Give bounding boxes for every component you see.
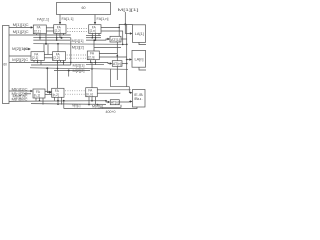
- wire row1 carry bus b: [33, 39, 70, 41]
- wire stub row2c1 o3: [40, 60, 42, 65]
- wire long vertical to row3 c3: [91, 62, 93, 87]
- svg-text:[2,n]: [2,n]: [88, 55, 94, 59]
- node row3c3 o1: [88, 104, 90, 106]
- svg-text:[n,2]: [n,2]: [53, 93, 59, 97]
- cell FA row3 c2: [52, 88, 64, 97]
- node FA[2,2] s2: [61, 37, 63, 39]
- node row3c3 o3: [97, 104, 99, 106]
- svg-text:FA[1,n]: FA[1,n]: [97, 17, 109, 21]
- node v57 y62.4: [57, 62, 59, 64]
- dotted continuation row3 upper: [65, 90, 84, 92]
- wire M[1][1]C register to FA[2,1]: [9, 26, 31, 28]
- svg-text:AT[n]: AT[n]: [113, 62, 122, 66]
- node FA[2,2] s1b: [56, 39, 58, 41]
- wire connector row2 c1-c2 upper: [44, 54, 52, 56]
- node row2c1 o2: [37, 62, 39, 64]
- wire stub row2c1 o1: [33, 60, 35, 62]
- wire bottom bus y104.6: [31, 103, 106, 106]
- wire bus under FA[2,n]: [86, 35, 101, 37]
- wire connector row3 c1-c2 lower: [45, 94, 52, 96]
- wire AT[n] out: [122, 63, 127, 65]
- node feedback x63.8: [63, 100, 65, 102]
- svg-text:LA[n]: LA[n]: [135, 57, 144, 61]
- dotted continuation row1 upper: [68, 28, 88, 30]
- node stub2 row1c1: [39, 37, 41, 39]
- wire E bottom feedback: [64, 107, 137, 109]
- wire connector row1 c1-c2 lower: [46, 30, 53, 32]
- accumulator AT (bottom): [110, 100, 119, 105]
- node row3c1 o2: [39, 100, 41, 102]
- wire into LA[n]: [127, 59, 130, 61]
- wire stub row2c1 o2: [37, 60, 39, 62]
- cell FA row2 c1: [31, 52, 44, 61]
- wire stub row3c2 o2: [57, 97, 59, 104]
- svg-text:FA[1,1]: FA[1,1]: [62, 17, 74, 21]
- cell FA row3 c3: [86, 88, 98, 97]
- node FA[2,2] s1: [56, 37, 58, 39]
- wire stub FA[2,2] out3: [62, 33, 64, 35]
- wire row3 c3 out upper into E: [97, 89, 130, 91]
- node row2c3 o2: [95, 62, 97, 64]
- wire row2 c3 out upper: [99, 53, 117, 55]
- svg-text:M[2][1]: M[2][1]: [73, 64, 85, 68]
- wire FA[2,n] out to LA[1] top bus: [101, 24, 133, 27]
- wire row1 sum bus a right segment: [86, 37, 101, 39]
- svg-text:LA[1]: LA[1]: [135, 32, 144, 36]
- node ATn out: [126, 63, 128, 65]
- register 60 (left): [3, 26, 10, 104]
- node LAn in: [126, 59, 128, 61]
- wire AT[1] out: [121, 38, 127, 40]
- cell FA row2 c3: [87, 51, 99, 60]
- wire corner band2 down x68.7: [68, 71, 70, 77]
- svg-text:[n,n]: [n,n]: [87, 92, 93, 96]
- wire stub row3c2 o3: [61, 97, 63, 104]
- cell FA row3 c1: [33, 89, 45, 98]
- wire M[n][2]C row: [24, 93, 31, 95]
- cell FA[2,1] row1: [33, 25, 46, 34]
- svg-text:M[1][1]C: M[1][1]C: [13, 23, 30, 27]
- svg-text:M[1][1]: M[1][1]: [72, 39, 84, 43]
- wire stub row2c3 o1: [90, 60, 92, 63]
- wire vertical band2 to row3 c1: [47, 68, 50, 92]
- dotted continuation row2 lower: [67, 57, 86, 59]
- node v92 y69: [91, 68, 93, 70]
- wire register long bus y62.4: [9, 62, 110, 63]
- node FA[2,n] s2: [95, 37, 97, 39]
- wire horizontal into right bus y86.7: [111, 86, 127, 88]
- wire stub FA[2,1] out3: [45, 34, 47, 44]
- wire long vertical to row3 c2: [57, 60, 59, 88]
- wire top register to FA[1,n]: [94, 15, 96, 23]
- svg-text:M[n][n]: M[n][n]: [92, 105, 103, 109]
- node y44.4 x122.7: [122, 44, 124, 46]
- wire stub row3c2 o1: [54, 97, 56, 100]
- svg-text:60: 60: [3, 63, 7, 67]
- node drop x58 on bus: [57, 43, 59, 45]
- svg-text:Bu.: Bu.: [134, 97, 143, 101]
- svg-text:[2,1]: [2,1]: [34, 29, 40, 33]
- wire band2 bus y68.4: [30, 68, 128, 70]
- node at x117 y55.7: [117, 55, 119, 57]
- svg-text:60: 60: [82, 6, 86, 10]
- wire stub row3c3 o3: [94, 97, 96, 105]
- wire into row2 c2 top: [57, 44, 59, 52]
- node bottom bus x106: [105, 100, 107, 102]
- node row3c2 o2: [57, 100, 59, 102]
- svg-text:AT[1]: AT[1]: [111, 38, 120, 42]
- wire stub FA[2,n] out3: [98, 33, 100, 35]
- dotted continuation row3 lower: [65, 93, 84, 95]
- wire drop x117.3 below AT[n]: [116, 66, 118, 80]
- accumulator AT[1]: [110, 36, 121, 42]
- wire corner band1 down: [70, 38, 72, 65]
- wire stub row3c1 o2: [39, 98, 41, 101]
- dotted continuation row1 lower: [68, 31, 88, 33]
- node x119 y27.4: [118, 27, 120, 29]
- wire M[2][1]C into row2 cell1: [23, 48, 29, 50]
- node row3c2 o2 lower: [57, 103, 59, 105]
- wire M[n][1]C into row3 c1: [9, 90, 31, 92]
- wire stub row2c3 o2: [94, 60, 96, 65]
- node band2 x47: [46, 67, 48, 69]
- svg-text:M[2][2]C: M[2][2]C: [12, 58, 29, 62]
- register 60 (top): [57, 3, 111, 15]
- wire stub FA[2,1] out2: [39, 34, 41, 40]
- wire right bus corner into E: [127, 87, 131, 93]
- node x70.8 on bus y62.4: [70, 62, 72, 64]
- wire top register to FA[1,1]: [59, 15, 61, 23]
- wire stub FA[2,n] out2: [95, 33, 97, 40]
- wire LA[n] bottom out: [139, 67, 146, 70]
- wire stub row3c3 o2: [91, 97, 93, 101]
- wire AT bottom out to E: [119, 101, 130, 104]
- wire row1 bus c: [33, 43, 126, 46]
- wire stub row3c1 o1: [35, 98, 37, 101]
- latch LA[n]: [132, 50, 146, 67]
- svg-text:[2,1]: [2,1]: [32, 56, 38, 60]
- wire connector row2 c1-c2 lower: [44, 57, 52, 59]
- wire M[1][2]C register bus under row1: [9, 34, 71, 36]
- wire register row2 feed: [9, 55, 31, 57]
- svg-text:AT[n]: AT[n]: [111, 101, 119, 105]
- wire stub FA[2,2] out1: [56, 33, 58, 40]
- wire drop x110.5 band2 to y86.7: [110, 69, 112, 86]
- svg-text:M[n][2]: M[n][2]: [72, 103, 80, 107]
- wire row1 sum bus a: [33, 37, 71, 39]
- wire row1 carry bus b right to AT[1]: [86, 39, 108, 40]
- wire band2 bus y65 left: [31, 64, 71, 66]
- wire bus into LA[1]: [125, 33, 130, 35]
- cell FA row2 c2: [53, 52, 66, 61]
- node row3c3 o2: [91, 100, 93, 102]
- svg-text:[2,2]: [2,2]: [53, 56, 59, 60]
- svg-text:[2,2]: [2,2]: [55, 29, 61, 33]
- buffer E (bottom right): [133, 90, 146, 108]
- wire stub row2c2 o2: [60, 60, 62, 62]
- wire row3 c3 out lower: [97, 92, 120, 95]
- node v57 y68.4: [57, 68, 59, 70]
- accumulator AT[n]: [112, 61, 122, 67]
- wire stub row3c1 o3: [42, 98, 44, 105]
- svg-text:M[1][2]: M[1][2]: [72, 45, 84, 49]
- svg-text:FA[2,1]: FA[2,1]: [37, 17, 49, 21]
- wire FA[2,n] out lower to AT column: [101, 31, 123, 44]
- svg-text:M[1][2]C: M[1][2]C: [13, 30, 30, 34]
- wire connector row3 c1-c2 upper: [45, 90, 52, 92]
- node row2c2 o3: [63, 62, 65, 64]
- node band2 x68.7: [68, 70, 70, 72]
- wire stub FA[2,2] out2: [59, 33, 61, 37]
- wire drop to row2 c1 top: [43, 44, 45, 52]
- wire drop to row2 connector: [47, 44, 49, 55]
- wire right vertical bus: [126, 24, 128, 86]
- latch LA[1]: [133, 25, 146, 43]
- wire into row2 c3 top: [93, 40, 95, 51]
- wire row2 c3 out lower: [99, 56, 126, 58]
- wire band2 lower segment: [54, 70, 90, 72]
- node on bus y24.4: [124, 23, 126, 25]
- wire M[1][1] label down to bus: [124, 12, 126, 34]
- node FA[2,n] s1: [92, 37, 94, 39]
- node drop x94: [93, 39, 95, 41]
- wire connector row1 c1-c2 upper: [46, 27, 53, 29]
- wire bus y47.5: [94, 47, 121, 49]
- svg-text:E.B: E.B: [134, 93, 143, 97]
- node row2c3 o1: [90, 62, 92, 64]
- node y44.4 x126.7: [126, 44, 128, 46]
- svg-text:[2,n]: [2,n]: [90, 29, 96, 33]
- svg-text:400+0: 400+0: [106, 110, 116, 114]
- dotted continuation row2 upper: [67, 54, 86, 56]
- wire stub FA[2,1] out1: [36, 34, 38, 35]
- svg-text:[n,1]: [n,1]: [34, 94, 40, 98]
- wire band2 bus y65 right: [86, 64, 104, 66]
- wire feedback riser: [63, 101, 65, 109]
- wire stub row3c3 o1: [88, 97, 90, 105]
- svg-text:M[2][2]: M[2][2]: [73, 69, 85, 73]
- wire AT bottom underline: [100, 105, 121, 108]
- wire drop into AT[1] top: [118, 27, 120, 36]
- node FA[2,n] s2b: [95, 39, 97, 41]
- node bus c x46: [45, 43, 47, 45]
- wire AT[1] bottom stub: [116, 42, 118, 61]
- svg-text:M[1][1]: M[1][1]: [118, 8, 139, 12]
- wire stub row2c2 o3: [63, 60, 65, 65]
- wire register bottom bus: [9, 100, 33, 102]
- wire LA[1] bottom out: [139, 42, 146, 44]
- wire stub FA[2,n] out1: [91, 33, 93, 37]
- cell FA[2,2] row1: [54, 25, 66, 34]
- cell FA[2,n] row1: [89, 25, 101, 34]
- wire bottom bus y100.7: [33, 101, 108, 102]
